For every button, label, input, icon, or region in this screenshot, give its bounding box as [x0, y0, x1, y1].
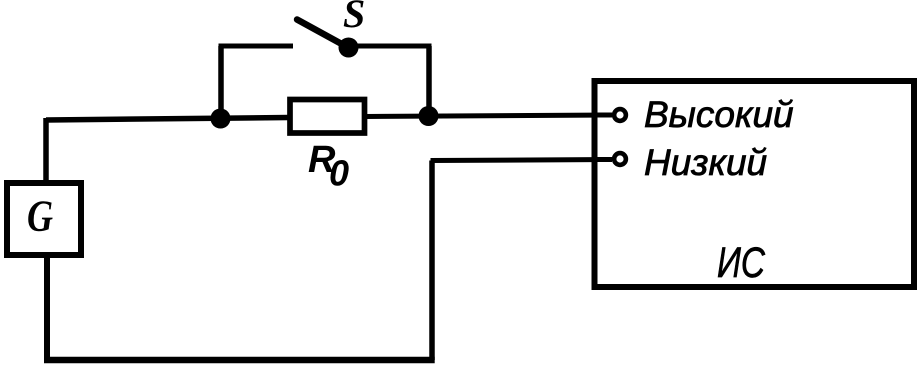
generator G box [7, 183, 81, 255]
terminal circle Низкий [614, 153, 626, 165]
svg-text:ИС: ИС [717, 239, 766, 287]
wire: main bus, generator corner to resistor left (node A on it) [46, 118, 289, 121]
wire: low branch horizontal to Низкий terminal [431, 160, 614, 161]
instrument box ИС [595, 81, 915, 287]
switch S blade (open) [297, 20, 349, 49]
wire: generator bottom vertical [44, 254, 50, 360]
wire: generator top vertical [43, 118, 49, 184]
wire: switch top-left fixed contact segment [219, 44, 294, 49]
wire: switch branch left vertical [218, 46, 224, 119]
svg-text:G: G [27, 192, 53, 241]
svg-text:Высокий: Высокий [644, 94, 794, 135]
node A: left junction dot [211, 109, 231, 129]
wire: bottom return run [44, 357, 435, 364]
wire: switch branch right vertical [426, 46, 432, 117]
wire: low branch vertical drop [429, 161, 435, 361]
wire: switch top-right segment [348, 44, 432, 49]
svg-text:0: 0 [329, 153, 349, 194]
switch S pivot dot [339, 38, 359, 58]
resistor R0 body [290, 100, 365, 134]
svg-text:S: S [343, 0, 365, 36]
node B: right junction dot [419, 106, 439, 126]
wire: stub to Высокий terminal inside box [594, 113, 612, 118]
wire: stub to Низкий terminal inside box [594, 157, 612, 162]
terminal circle Высокий [614, 109, 626, 121]
svg-text:Низкий: Низкий [644, 142, 767, 183]
wire: main bus, resistor right to Высокий terminal (node B on it) [366, 115, 613, 117]
